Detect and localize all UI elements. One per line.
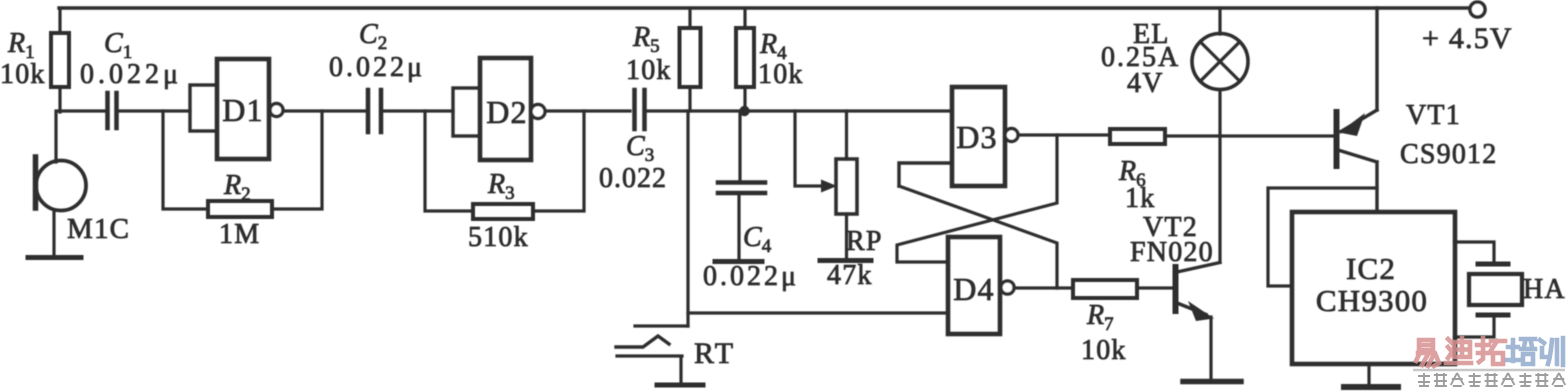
wire R2 feedback right xyxy=(272,111,322,209)
transistor VT1 emitter xyxy=(1341,8,1377,132)
resistor R1 xyxy=(51,33,69,87)
microphone M1C xyxy=(36,161,86,211)
wire node to RP top xyxy=(845,111,848,159)
wire rail to R5 xyxy=(688,8,691,28)
wire R7 to VT2 base xyxy=(1137,286,1174,289)
svg-text:10k: 10k xyxy=(626,55,672,86)
svg-text:D2: D2 xyxy=(486,94,528,130)
svg-text:1M: 1M xyxy=(219,219,260,250)
wire rail to lamp EL xyxy=(1218,8,1221,34)
transistor VT1 collector xyxy=(1338,150,1377,212)
nand D4 xyxy=(948,237,1000,334)
wire IC2 to ground xyxy=(1367,364,1370,385)
wire R1 to node A xyxy=(58,87,61,112)
wire +4.5V top supply rail xyxy=(59,6,1471,9)
wire C1 to D1 input xyxy=(118,109,190,112)
svg-text:510k: 510k xyxy=(468,222,529,253)
wire R3 feedback left xyxy=(425,111,473,211)
svg-text:+ 4.5V: + 4.5V xyxy=(1422,22,1513,55)
svg-text:RP: RP xyxy=(846,226,883,257)
svg-text:RT: RT xyxy=(694,337,736,370)
svg-text:CS9012: CS9012 xyxy=(1400,139,1497,170)
nand D3 output bubble xyxy=(1005,129,1018,142)
svg-text:0.022μ: 0.022μ xyxy=(703,261,799,292)
svg-text:4V: 4V xyxy=(1127,68,1164,99)
resistor R6 xyxy=(1110,129,1165,144)
wire node A to C1 xyxy=(59,109,107,112)
wire D3 output to R6 xyxy=(1018,133,1110,136)
inverter D2 xyxy=(480,58,531,160)
watermark char di xyxy=(1446,338,1471,363)
wire R6 to VT1 base xyxy=(1165,134,1336,137)
nand D3 input notch xyxy=(899,163,952,186)
wire node B to RP wiper xyxy=(795,111,822,186)
ic IC2 xyxy=(1292,212,1455,364)
resistor R5 xyxy=(680,28,701,87)
wiper arrow RP xyxy=(821,180,837,193)
svg-text:CH9300: CH9300 xyxy=(1316,283,1428,318)
watermark char yi xyxy=(1416,340,1439,366)
piezo HA top plate xyxy=(1478,262,1508,267)
ground RP xyxy=(820,258,871,263)
watermark char xun xyxy=(1540,338,1563,365)
wire RP bottom to ground xyxy=(845,214,848,258)
wire D2 output to C3 xyxy=(547,109,630,112)
node B junction xyxy=(739,106,749,116)
transistor VT2 collector xyxy=(1177,263,1220,273)
wire C2 to D2 input xyxy=(382,109,453,112)
wire lamp EL to VT2 collector xyxy=(1218,90,1221,262)
svg-text:10k: 10k xyxy=(758,59,804,90)
resistor R2 xyxy=(208,201,272,217)
resistor R4 xyxy=(736,28,754,87)
lamp EL xyxy=(1192,34,1248,90)
wire microphone to ground xyxy=(52,210,55,256)
wire VT2 emitter to ground xyxy=(1209,317,1212,379)
resistor R7 xyxy=(1073,280,1137,298)
ground VT2 xyxy=(1183,379,1241,385)
ground C4 xyxy=(715,259,762,264)
svg-text:D3: D3 xyxy=(956,119,998,155)
svg-text:0.022: 0.022 xyxy=(599,163,667,194)
wire R4 to node B xyxy=(743,87,746,112)
wire R2 feedback left xyxy=(163,111,208,209)
inverter D1 input notch xyxy=(190,85,217,131)
inverter D1 xyxy=(217,59,269,159)
transistor VT1 base bar xyxy=(1334,112,1340,166)
svg-text:D1: D1 xyxy=(222,92,264,128)
svg-text:1k: 1k xyxy=(1125,183,1155,214)
watermark underline xyxy=(1413,369,1565,372)
ground RT xyxy=(657,383,703,388)
wire node B to C4 xyxy=(738,112,741,182)
piezo HA element xyxy=(1469,274,1522,305)
capacitor C4 xyxy=(718,180,765,185)
wire node to RT switch xyxy=(686,111,689,326)
wire C3 to D3 input xyxy=(647,109,952,112)
switch RT lever xyxy=(616,336,669,347)
wire R3 feedback right xyxy=(533,111,584,211)
watermark subtitle she-pin-he-tian-xian-she-ji-zhuan-jia xyxy=(1418,373,1430,386)
svg-text:M1C: M1C xyxy=(67,213,130,245)
capacitor C1 xyxy=(105,93,110,128)
wire D3 lower input cross-couple to D4 output xyxy=(899,186,1057,288)
wire HA bottom to IC2 xyxy=(1455,317,1494,337)
inverter D2 output bubble xyxy=(531,105,545,119)
svg-text:HA: HA xyxy=(1523,274,1566,305)
ground IC2 xyxy=(1344,384,1398,390)
nand D4 output bubble xyxy=(1001,281,1014,294)
wire C4 to ground xyxy=(737,194,740,259)
ground M1C xyxy=(28,255,81,260)
wire VT1 collector to IC2 left pin xyxy=(1268,188,1377,286)
capacitor C2 xyxy=(366,90,371,132)
nand D3 xyxy=(952,87,1005,186)
inverter D1 output bubble xyxy=(270,104,283,117)
wire D1 output to C2 xyxy=(283,109,366,112)
transistor VT2 base bar xyxy=(1173,267,1179,311)
wire R5 to signal node xyxy=(688,87,691,111)
svg-text:10k: 10k xyxy=(1081,335,1127,366)
svg-text:47k: 47k xyxy=(827,260,873,291)
potentiometer RP xyxy=(836,159,857,214)
switch RT lower contact xyxy=(617,356,682,383)
svg-text:FN020: FN020 xyxy=(1130,237,1214,268)
piezo HA bottom plate xyxy=(1478,313,1508,318)
wire bottom rail to D4 input xyxy=(688,311,948,314)
svg-text:VT1: VT1 xyxy=(1406,100,1461,131)
terminal +4.5V xyxy=(1470,2,1485,17)
resistor R3 xyxy=(473,204,533,219)
watermark char pei xyxy=(1507,339,1535,364)
wire IC2 to HA top xyxy=(1455,242,1494,262)
svg-text:0.022μ: 0.022μ xyxy=(80,59,182,90)
svg-text:0.022μ: 0.022μ xyxy=(329,52,425,83)
transistor VT2 emitter xyxy=(1177,303,1206,315)
svg-text:D4: D4 xyxy=(953,271,995,307)
wire rail to R4 xyxy=(743,8,746,28)
capacitor C3 xyxy=(632,90,637,129)
svg-text:IC2: IC2 xyxy=(1346,251,1396,286)
svg-text:10k: 10k xyxy=(0,59,46,90)
wire node A to microphone xyxy=(54,111,57,162)
wire D4 output to R7 xyxy=(1014,286,1073,289)
switch RT fixed contact xyxy=(635,324,688,327)
watermark char tuo xyxy=(1477,338,1505,364)
wire rail to R1 xyxy=(58,8,61,33)
wire D3 output cross-couple to D4 input xyxy=(897,135,1057,262)
inverter D2 input notch xyxy=(453,88,480,136)
